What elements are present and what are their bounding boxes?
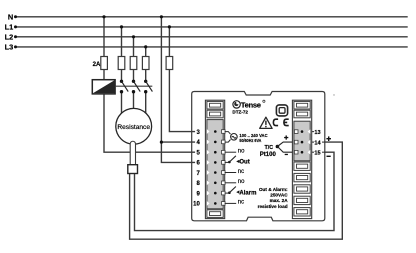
- svg-text:no: no: [238, 149, 245, 155]
- right strip pin contacts 13-15: [301, 130, 304, 153]
- left terminal strip X1: [205, 100, 224, 218]
- panel mount icon: [276, 105, 287, 116]
- junction dot on L2 at x=133.5: [132, 35, 135, 38]
- wire stub terminal 13: [312, 131, 315, 133]
- wire contact K1.1 to heater R1: [121, 92, 123, 114]
- heater R1 Resistance: [116, 108, 152, 144]
- junction dot on N at x=161.4: [160, 15, 163, 18]
- output rating label: [258, 187, 289, 209]
- svg-text:nc: nc: [238, 169, 244, 175]
- logo TENSE: [233, 100, 265, 109]
- svg-text:15: 15: [314, 151, 320, 157]
- wire N drop to terminals 4 and 6: [161, 17, 194, 163]
- fuse F1 2A: [101, 57, 108, 70]
- fuse F3: [130, 57, 137, 70]
- temperature probe B1 head: [128, 165, 138, 174]
- relay Out armature: [228, 161, 231, 164]
- right terminal strip X2: [292, 100, 311, 218]
- left strip pin contacts 3-10: [214, 130, 217, 205]
- wire L3 bus: [15, 46, 407, 48]
- svg-text:DTZ-72: DTZ-72: [232, 110, 248, 115]
- svg-text:250VAC: 250VAC: [270, 193, 288, 198]
- svg-text:10: 10: [193, 202, 200, 208]
- wire node to terminal 4: [161, 141, 194, 143]
- wire L2 bus: [15, 36, 407, 38]
- temperature probe B1 sheath: [130, 141, 135, 164]
- wire N bus: [15, 16, 407, 18]
- svg-text:N: N: [8, 12, 13, 21]
- fuse F4: [142, 57, 149, 70]
- svg-text:2A: 2A: [93, 62, 101, 68]
- terminal number 13: [314, 129, 322, 136]
- svg-text:14: 14: [314, 140, 321, 146]
- contact K1.1: [120, 80, 128, 94]
- svg-text:Resistance: Resistance: [117, 124, 150, 131]
- polarity minus inside: [285, 154, 288, 155]
- terminal number 14: [314, 139, 322, 146]
- svg-text:resistive load: resistive load: [258, 204, 288, 209]
- wire fuse F2 to contact K1.1: [121, 70, 123, 82]
- svg-text:Alarm: Alarm: [239, 190, 256, 196]
- svg-text:T/C: T/C: [265, 145, 274, 151]
- svg-text:13: 13: [314, 130, 320, 136]
- svg-text:max. 2A: max. 2A: [270, 198, 289, 203]
- T/C Pt100 node and bracket: [276, 142, 293, 152]
- wire L3 drop to fuse F4: [145, 47, 147, 57]
- wire fuse F4 to contact K1.3: [145, 70, 147, 82]
- wire terminal 14 to probe plus lead: [130, 142, 343, 239]
- svg-text:L1: L1: [5, 23, 14, 32]
- wire SSR K1 to terminal 5: [104, 94, 194, 152]
- wire terminal 15 to probe minus lead: [135, 152, 335, 230]
- relay Alarm group stubs: [225, 183, 237, 204]
- SSR K1 coil box: [92, 80, 115, 94]
- junction dot terminal-4 branch: [160, 141, 163, 144]
- svg-text:Tense: Tense: [241, 100, 261, 109]
- label Out with arrow (terminal 6): [236, 160, 239, 163]
- fuse F2: [118, 57, 125, 70]
- AC supply symbol: [225, 132, 238, 143]
- warning triangle icon: [260, 117, 272, 128]
- junction dot on L1 at x=121.5: [120, 25, 123, 28]
- wire fuse F5 to terminal 3: [169, 70, 194, 132]
- polarity plus outside: [326, 136, 331, 141]
- wire stub terminal 15 to edge: [312, 151, 325, 153]
- contact K1.3: [144, 80, 152, 94]
- footnote mark top right: [333, 94, 334, 95]
- bus labels N L1 L2 L3: [5, 12, 14, 51]
- supply line start dots N L1 L2 L3: [14, 15, 17, 48]
- svg-text:Out: Out: [239, 160, 249, 166]
- svg-text:50/60Hz 6VA: 50/60Hz 6VA: [239, 138, 261, 144]
- wire L2 drop to fuse F3: [133, 37, 135, 57]
- svg-text:no: no: [238, 179, 245, 185]
- polarity minus outside: [327, 156, 331, 157]
- wire stub terminal 14 to edge: [312, 141, 325, 143]
- svg-text:Out & Alarm:: Out & Alarm:: [259, 187, 288, 192]
- junction dot on L1 at x=169.4: [168, 25, 171, 28]
- junction dot on L3 at x=145.7: [144, 45, 147, 48]
- label Alarm with arrow (terminal 9): [236, 190, 239, 193]
- junction dot on N at x=104: [102, 15, 105, 18]
- wire L1 bus: [15, 26, 407, 28]
- CE mark: [273, 119, 288, 125]
- svg-text:nc: nc: [238, 200, 244, 206]
- svg-text:L2: L2: [5, 33, 14, 42]
- wire fuse F1 to SSR K1: [103, 70, 105, 80]
- wire contact K1.3 to heater R1: [145, 92, 147, 114]
- wire contact K1.2 to heater R1: [133, 92, 135, 109]
- device U1 DTZ-72 outer case: [192, 92, 325, 221]
- wire fuse F3 to contact K1.2: [133, 70, 135, 82]
- wire N drop to fuse F1: [103, 17, 105, 57]
- wire L1 drop to fuse F5: [168, 27, 170, 57]
- contact K1.2: [132, 80, 140, 94]
- wire L1 drop to fuse F2: [121, 27, 123, 57]
- supply rating label: [239, 133, 268, 144]
- svg-text:Pt100: Pt100: [260, 152, 277, 158]
- polarity plus inside: [284, 135, 288, 139]
- relay Alarm armature: [228, 191, 231, 194]
- terminal number 15: [314, 149, 322, 156]
- contactor linkage wire: [115, 85, 152, 87]
- relay Out group stubs: [225, 152, 237, 172]
- fuse F5: [166, 57, 173, 70]
- svg-text:L3: L3: [5, 43, 14, 52]
